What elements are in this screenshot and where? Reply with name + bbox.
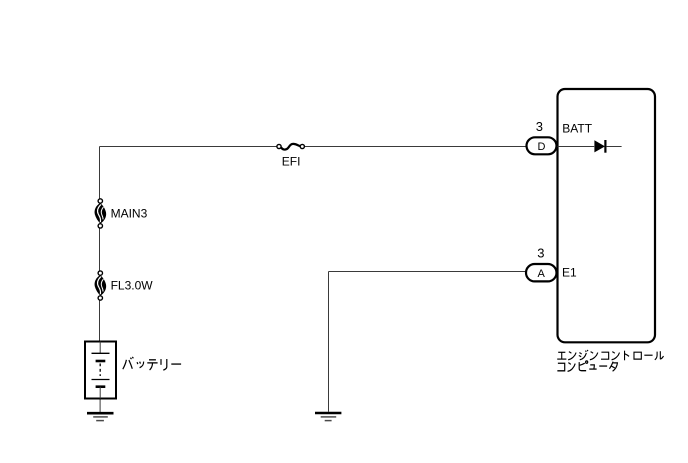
diode D1	[594, 140, 605, 153]
connector pin D	[527, 137, 557, 154]
label ECU line2 (katakana)	[557, 361, 617, 371]
connector pin A	[526, 264, 557, 281]
svg-text:EFI: EFI	[282, 155, 301, 169]
fusible link FL3.0W	[95, 271, 107, 300]
svg-text:E1: E1	[562, 265, 577, 279]
wire top horizontal from left corner to EFI fuse	[100, 146, 277, 148]
wire E1 vertical to ground	[328, 272, 330, 412]
svg-text:MAIN3: MAIN3	[111, 207, 148, 221]
wire after diode	[607, 146, 622, 148]
wire left vertical segment 3 (FL3.0W to battery)	[99, 300, 101, 341]
ground (E1)	[315, 413, 341, 421]
battery	[85, 342, 116, 399]
svg-text:3: 3	[536, 119, 543, 134]
svg-text:A: A	[538, 268, 546, 280]
fuse EFI	[277, 144, 305, 150]
wire left vertical segment 1 (corner to MAIN3)	[99, 147, 101, 199]
svg-text:BATT: BATT	[562, 122, 592, 136]
fusible link MAIN3	[95, 199, 107, 228]
svg-text:FL3.0W: FL3.0W	[111, 279, 154, 293]
label battery (katakana)	[123, 357, 181, 370]
wire left vertical segment 2 (MAIN3 to FL3.0W)	[99, 228, 101, 271]
ECU box U1	[558, 89, 656, 342]
wire from ECU edge to diode	[557, 146, 594, 148]
svg-text:D: D	[538, 141, 546, 153]
label ECU line1 (katakana)	[557, 350, 663, 360]
wire E1 horizontal	[329, 271, 528, 273]
wire from EFI fuse to connector D	[305, 146, 528, 148]
ground (battery)	[87, 413, 114, 420]
wire battery to ground	[99, 399, 101, 413]
svg-text:3: 3	[537, 246, 544, 261]
